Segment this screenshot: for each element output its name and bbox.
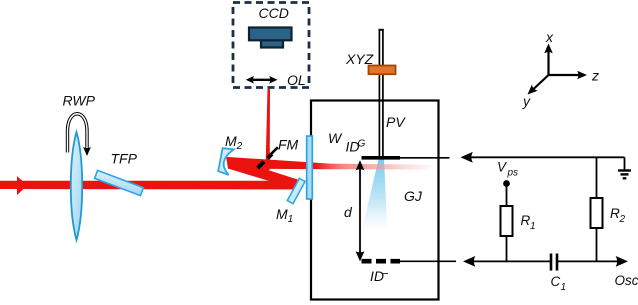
svg-text:TFP: TFP	[111, 151, 138, 167]
wire R1 to bottom rail	[506, 236, 508, 262]
svg-text:GJ: GJ	[404, 188, 423, 204]
CCD camera lens barrel	[261, 39, 283, 48]
svg-text:C: C	[551, 274, 561, 289]
svg-text:ps: ps	[507, 168, 519, 179]
svg-text:y: y	[522, 93, 531, 109]
svg-text:2: 2	[619, 214, 626, 225]
svg-text:R: R	[521, 213, 531, 228]
svg-text:G: G	[358, 139, 366, 150]
svg-text:CCD: CCD	[259, 5, 289, 21]
resistor R2	[591, 198, 603, 228]
bottom rail left arrow	[463, 256, 475, 267]
rotating wave plate RWP	[71, 132, 82, 240]
wire Vps to R1	[506, 185, 508, 206]
ID^- electrode dashed	[362, 259, 401, 264]
laser beam input	[0, 181, 302, 190]
beam FM to OL vertical	[266, 89, 271, 170]
svg-text:1: 1	[561, 282, 567, 293]
CCD camera body	[249, 28, 292, 41]
window W	[307, 136, 313, 199]
circuit top rail with left arrow	[461, 152, 473, 163]
coordinate axes	[547, 49, 549, 75]
objective lens OL double arrow	[251, 79, 272, 81]
svg-text:PV: PV	[386, 114, 406, 130]
mirror M1	[287, 178, 305, 203]
bottom rail right segment with arrow	[558, 260, 619, 262]
svg-text:M1: M1	[276, 206, 293, 225]
wire R2 to bottom rail	[596, 228, 598, 261]
RWP rotation arrow	[68, 114, 88, 153]
beam M2 to chamber (fading)	[228, 157, 436, 170]
resistor R1	[501, 206, 513, 236]
CCD dashed enclosure	[233, 3, 309, 88]
thin film polarizer TFP	[95, 170, 144, 195]
capacitor C1	[550, 254, 553, 271]
svg-text:x: x	[545, 29, 554, 45]
ID^G electrode bar	[362, 156, 401, 160]
beam M1 to M2	[226, 157, 302, 190]
svg-text:Osc: Osc	[615, 273, 638, 288]
R2 branch wire	[596, 157, 598, 198]
svg-text:z: z	[591, 68, 599, 84]
flip mirror FM dashed	[258, 154, 273, 168]
ID^- wire stub	[399, 260, 456, 262]
svg-text:OL: OL	[287, 72, 306, 88]
vacuum chamber box	[311, 101, 439, 300]
ground symbol	[618, 169, 631, 171]
svg-text:V: V	[497, 160, 508, 175]
svg-text:R: R	[610, 206, 620, 221]
svg-text:RWP: RWP	[63, 93, 96, 109]
svg-text:−: −	[382, 267, 389, 281]
mirror M2	[218, 148, 234, 175]
wire corner to ground	[624, 157, 626, 170]
XYZ translation stage	[369, 66, 396, 75]
FM pointer	[270, 147, 278, 155]
svg-text:1: 1	[530, 221, 536, 232]
Vps terminal dot	[503, 180, 510, 187]
svg-text:W: W	[328, 130, 343, 146]
ID^G wire stub	[400, 157, 450, 159]
gas jet GJ	[362, 159, 387, 231]
svg-text:d: d	[344, 204, 353, 220]
distance arrow d	[359, 165, 361, 256]
beam arrowhead	[17, 176, 28, 195]
PV support tube	[378, 30, 380, 156]
svg-text:FM: FM	[278, 137, 299, 153]
